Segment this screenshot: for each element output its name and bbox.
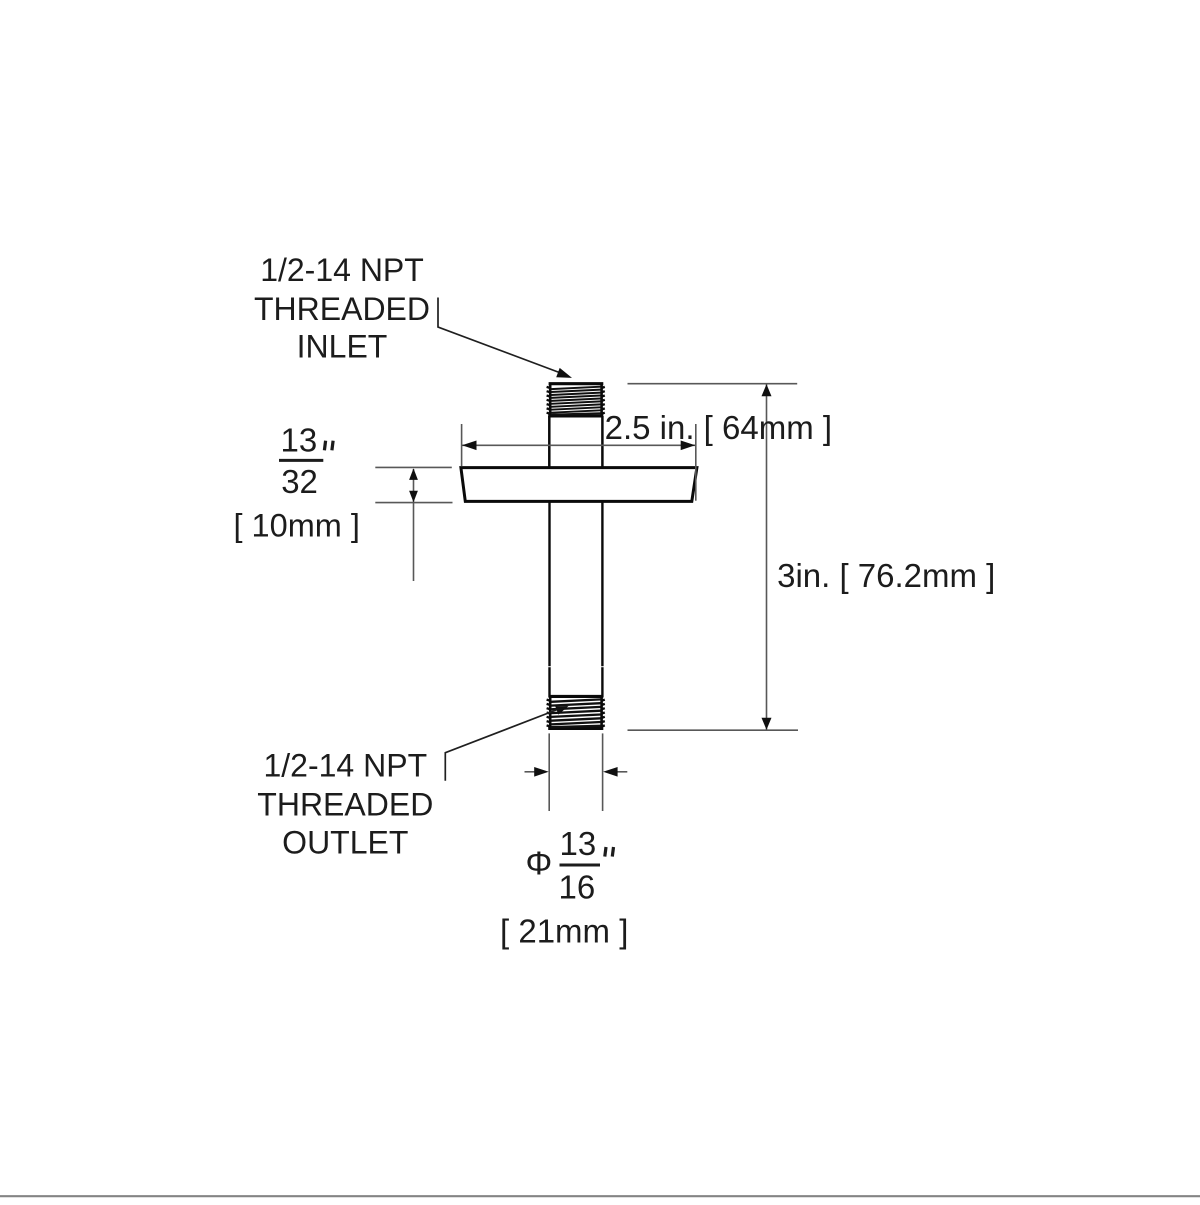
svg-text:1/2-14 NPT: 1/2-14 NPT (263, 748, 427, 784)
svg-text:[ 10mm ]: [ 10mm ] (234, 508, 360, 544)
svg-text:13: 13 (560, 825, 597, 862)
svg-text:32: 32 (281, 463, 318, 500)
svg-text:3in. [ 76.2mm ]: 3in. [ 76.2mm ] (777, 557, 995, 594)
svg-text:16: 16 (559, 869, 596, 906)
svg-text:THREADED: THREADED (257, 786, 433, 822)
svg-text:1/2-14 NPT: 1/2-14 NPT (260, 252, 424, 288)
svg-text:INLET: INLET (297, 329, 388, 365)
svg-text:THREADED: THREADED (254, 291, 430, 327)
svg-text:[ 21mm ]: [ 21mm ] (500, 913, 628, 950)
svg-text:2.5 in. [ 64mm ]: 2.5 in. [ 64mm ] (605, 409, 832, 446)
svg-text:13: 13 (281, 422, 318, 459)
svg-text:Φ: Φ (526, 846, 553, 883)
svg-text:OUTLET: OUTLET (282, 825, 408, 861)
